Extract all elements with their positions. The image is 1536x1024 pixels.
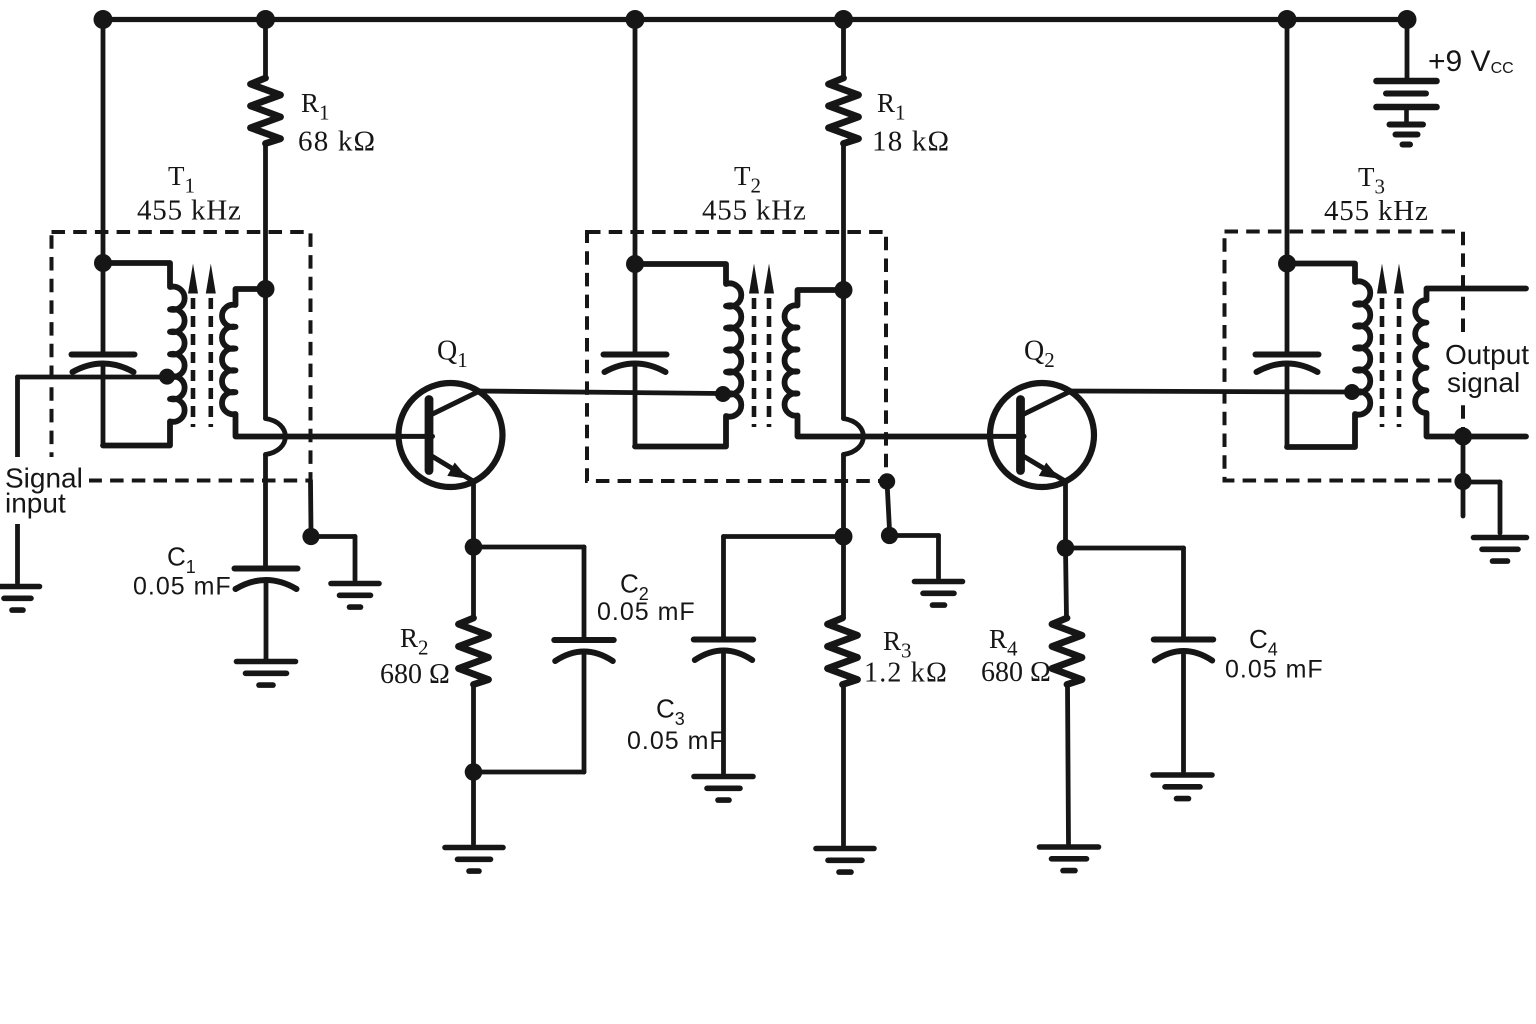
wire: T3 corner ground [1461,437,1466,482]
wire: Q2 collector to T3 tap [1069,391,1350,392]
wire: R1 to T1 secondary top [263,144,268,290]
svg-text:1.2 kΩ: 1.2 kΩ [864,658,948,689]
resistor R2 (680 Ohm) [459,618,489,685]
wire: R2 to bottom junction [471,685,476,773]
capacitor C2 [554,637,614,643]
Q1 collector lead [433,392,478,414]
battery +9 Vcc [1377,78,1437,85]
svg-text:signal: signal [1447,367,1520,398]
svg-text:input: input [5,488,66,519]
Q2 base bar [1016,400,1025,471]
T2 core line with arrow [752,298,757,427]
node: Q1 emitter junction [465,538,483,556]
wire: C4 to ground [1181,655,1186,772]
wire: T1 shield corner to ground [308,481,313,532]
ground: R3 [816,846,874,852]
transistor Q1 circle [399,383,503,487]
T3 primary tuning capacitor [1256,352,1319,358]
wire: T3 primary left leg (lower) [1285,366,1290,447]
Q2 emitter lead with arrow [1024,457,1065,481]
node: T3 primary top [1278,255,1296,273]
svg-text:0.05 mF: 0.05 mF [1225,656,1324,684]
ground: T1 shield [331,581,379,587]
wire: T2 primary left leg (lower) [633,366,638,447]
wire: hop down to C1 [263,455,268,566]
ground: T2 shield [915,579,963,585]
node: output low junction [1454,428,1472,446]
svg-text:Output: Output [1445,339,1529,370]
svg-text:455 kHz: 455 kHz [1324,195,1429,227]
wire: R4 to ground [1068,685,1069,845]
transformer T3 shield box (dashed) [1225,232,1464,481]
ground: output/T3 shield [1474,535,1527,541]
wire: rail to R1(68k) [263,20,268,79]
node: rail corner at battery [1398,10,1417,29]
Q1 base stub [399,434,433,439]
ground: C4 [1153,772,1212,778]
node: rail junction above T1 primary [94,10,113,29]
svg-text:0.05 mF: 0.05 mF [627,727,726,755]
wire: T2 shield corner to ground [887,482,890,531]
wire: Q2 emitter down [1063,482,1068,548]
resistor R4 (680 Ohm) [1052,618,1082,685]
label background for Signal input [0,457,89,524]
node: T2 shield corner [879,473,895,489]
ground: C3 [694,774,753,780]
wire: Q1 collector to T2 tap [478,391,723,394]
ground: Q1 emitter [445,845,503,851]
label background for Output signal [1437,339,1532,403]
wire: C2 bottom loop [582,655,587,772]
wire: T1 primary left leg (lower) [101,366,106,446]
node: Q2 emitter junction [1057,539,1075,557]
wire: T3 primary left leg (upper) [1285,264,1290,352]
svg-text:680 Ω: 680 Ω [981,657,1051,688]
wire: T2 secondary top down to hop [841,290,846,419]
Q1 base bar [425,400,434,471]
wire: emitter junction to C4 [1066,546,1184,551]
wire: T1 secondary top down to hop [263,289,268,419]
capacitor C1 [235,566,298,572]
T1 primary winding [103,263,185,446]
T2 primary tuning capacitor [604,352,667,358]
T2 core line with arrow [767,298,772,427]
ground: Q2 emitter [1040,844,1099,850]
T2 primary winding [635,264,741,447]
svg-text:680 Ω: 680 Ω [380,659,450,690]
resistor R1 (68 kOhm) [251,78,281,144]
wire: emitter junction to R2 [471,547,476,618]
svg-text:455 kHz: 455 kHz [137,195,242,227]
wire: T2 primary left leg (upper) [633,264,638,352]
node: T1 primary top [94,254,112,272]
node: T3 shield corner [1454,473,1471,490]
node: T1 shield ground junction [302,528,319,545]
node: R2/C2 bottom junction [465,763,483,781]
wire: emitter junction to C2 [474,545,585,550]
wire: +9V supply rail (top) [98,17,1407,22]
node: rail junction above T2 primary [626,10,645,29]
wire hop over base lead [266,419,286,455]
Q2 collector lead [1024,392,1069,414]
svg-text:68 kΩ: 68 kΩ [298,126,376,158]
wire: Q1 emitter down [471,482,476,547]
T1 core line with arrow [209,298,214,427]
T1 core line with arrow [191,298,196,427]
Q2 base stub [990,434,1024,439]
node: R3/C3 junction [835,528,853,546]
node: T2 primary tap [715,386,731,402]
capacitor C3 [694,637,754,643]
transformer T1 shield box (dashed) [52,232,311,481]
svg-text:455 kHz: 455 kHz [702,195,807,227]
node: T2 secondary top on bias wire [835,281,853,299]
T3 core line with arrow [1397,298,1402,427]
node: T2 shield ground junction [881,527,898,544]
node: T1 secondary top on bias wire [257,280,275,298]
resistor R1 (18 kOhm) [829,78,859,144]
svg-text:0.05 mF: 0.05 mF [133,573,232,601]
T3 core line with arrow [1380,298,1385,427]
T3 secondary winding [1415,289,1526,437]
T1 primary tuning capacitor [72,352,135,358]
node: T2 primary top [626,255,644,273]
wire: rail to R1(18k) [841,20,846,79]
wire: rail to T3 primary [1285,20,1290,264]
ground: signal input [0,584,40,590]
wire: emitter junction to R4 [1066,548,1067,618]
T2 secondary winding [785,290,990,437]
wire: T1 primary left leg (upper) [101,263,106,352]
wire: signal input horizontal to T1 tap [18,375,165,380]
wire: junction to R3 [841,537,846,619]
Q1 emitter lead with arrow [433,457,473,481]
transistor Q2 circle [990,383,1094,487]
resistor R3 (1.2 kOhm) [828,618,858,685]
T3 primary winding [1287,264,1370,448]
wire: rail to T2 primary [633,20,638,265]
wire: signal input vertical [15,377,20,583]
transformer T2 shield box (dashed) [587,232,886,481]
node: T3 primary tap [1344,384,1360,400]
ground: C1 [237,659,296,665]
T1 secondary winding [222,289,399,437]
wire: bottom junction to ground [471,772,476,844]
wire: C3 to ground [721,654,726,773]
svg-text:0.05 mF: 0.05 mF [597,598,696,626]
wire: rail down to battery [1405,20,1410,79]
wire: R3 to ground [841,685,846,846]
wire: hop down to bias junction [841,455,846,537]
wire: rail to T1 primary [101,20,106,264]
svg-text:18 kΩ: 18 kΩ [872,126,950,158]
node: rail junction above R1 (18k) [834,10,853,29]
capacitor C4 [1154,637,1214,643]
node: rail junction above T3 primary [1278,10,1297,29]
wire: R1(18k) to T2 secondary top [841,144,846,291]
node: T1 primary tap [159,369,175,385]
wire: junction to C3 [724,534,844,539]
wire hop over base lead (T2) [844,419,864,455]
node: rail junction above R1 (68k) [256,10,275,29]
wire: C1 to ground [264,583,269,659]
